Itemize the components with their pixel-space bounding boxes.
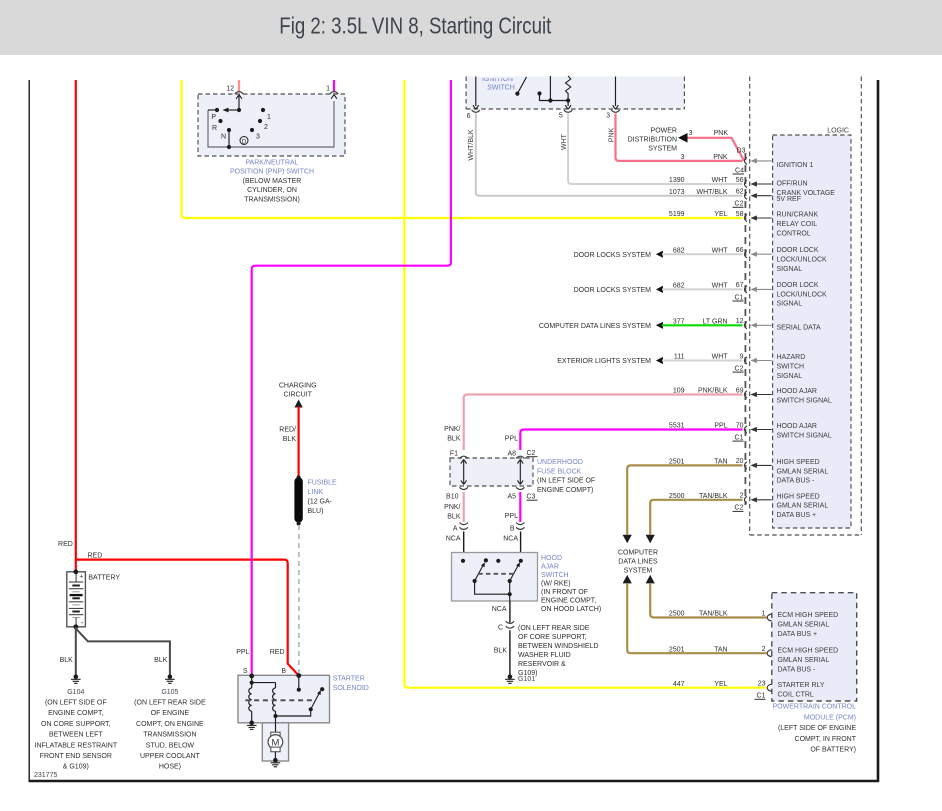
svg-text:OFF/RUN: OFF/RUN xyxy=(777,180,808,187)
svg-text:(IN LEFT SIDE OF: (IN LEFT SIDE OF xyxy=(537,478,595,485)
svg-text:BETWEEN WINDSHIELD: BETWEEN WINDSHIELD xyxy=(518,643,599,650)
door locks system reference (pin 66) xyxy=(656,251,663,258)
svg-text:SWITCH: SWITCH xyxy=(487,85,515,92)
svg-text:231775: 231775 xyxy=(34,772,57,779)
svg-text:NCA: NCA xyxy=(503,536,518,543)
fuse block pin B10 xyxy=(460,487,468,489)
wire PNK to power distribution system (with diagonal) xyxy=(687,138,744,161)
hood ajar switch box xyxy=(452,553,538,602)
svg-text:DOOR LOCK: DOOR LOCK xyxy=(777,282,819,289)
wire TAN to ECM pin 2 xyxy=(627,583,766,653)
svg-text:COMPUTER: COMPUTER xyxy=(618,549,658,556)
PCM pin 56 row xyxy=(745,180,747,187)
svg-text:HOOD AJAR: HOOD AJAR xyxy=(777,423,817,430)
svg-text:STARTER: STARTER xyxy=(333,676,365,683)
svg-text:BLK: BLK xyxy=(447,514,461,521)
connector B xyxy=(516,523,524,525)
svg-text:5199: 5199 xyxy=(669,211,685,218)
computer data lines system reference (pin 12) serial data wire LT GRN xyxy=(656,322,663,329)
svg-text:DOOR LOCKS SYSTEM: DOOR LOCKS SYSTEM xyxy=(574,252,652,259)
svg-text:WASHER FLUID: WASHER FLUID xyxy=(518,652,571,659)
svg-text:TRANSMISSION): TRANSMISSION) xyxy=(244,196,300,203)
svg-text:5: 5 xyxy=(559,112,563,119)
svg-text:+: + xyxy=(79,574,83,581)
svg-text:BLU): BLU) xyxy=(308,508,324,515)
svg-text:5V REF: 5V REF xyxy=(777,196,802,203)
svg-text:LOCK/UNLOCK: LOCK/UNLOCK xyxy=(777,257,828,264)
wire YEL run/crank: left vertical + horizontal to PCM pin 58 xyxy=(182,80,743,218)
svg-text:ENGINE COMPT,: ENGINE COMPT, xyxy=(48,710,103,717)
svg-text:GMLAN SERIAL: GMLAN SERIAL xyxy=(778,657,830,664)
wire BLK to G101 xyxy=(509,630,511,674)
solenoid coils xyxy=(251,676,253,683)
ignition resistor xyxy=(566,76,571,101)
svg-text:SYSTEM: SYSTEM xyxy=(624,568,653,575)
svg-text:BLK: BLK xyxy=(447,436,461,443)
wire hidden RED/BLK dashed to solenoid B xyxy=(298,525,300,674)
solenoid B terminal xyxy=(296,673,301,678)
fuse block pin A8 xyxy=(516,456,524,458)
svg-text:RED: RED xyxy=(88,552,103,559)
PNP internal wiper and contacts xyxy=(238,96,240,110)
fuse element A8-A5 xyxy=(519,460,521,484)
svg-text:ON CORE SUPPORT,: ON CORE SUPPORT, xyxy=(41,721,111,728)
svg-text:PNK: PNK xyxy=(714,130,729,137)
fuse block pin F1 xyxy=(460,456,468,458)
ignition switch box (top cut off) xyxy=(466,77,684,110)
wire TAN PCM pin 20 to data lines arrow xyxy=(627,465,742,534)
wire WHT from ignition pin 5 to PCM pin 56 xyxy=(568,114,742,185)
svg-text:C2: C2 xyxy=(735,365,744,372)
svg-text:HOOD: HOOD xyxy=(541,555,562,562)
wire PNK/BLK PCM pin 69 to fuse block F1 xyxy=(464,395,743,451)
svg-text:PNK: PNK xyxy=(713,154,728,161)
svg-text:TRANSMISSION: TRANSMISSION xyxy=(143,732,196,739)
svg-text:TAN: TAN xyxy=(714,646,727,653)
PCM LOGIC box xyxy=(773,135,851,528)
svg-text:9: 9 xyxy=(740,353,744,360)
PCM pin 69 row xyxy=(745,391,747,398)
svg-text:1390: 1390 xyxy=(669,177,685,184)
svg-text:3: 3 xyxy=(256,134,260,141)
svg-text:SERIAL DATA: SERIAL DATA xyxy=(777,325,822,332)
PCM pin 9 row xyxy=(745,357,747,364)
svg-text:(BELOW MASTER: (BELOW MASTER xyxy=(243,178,302,185)
svg-text:ECM HIGH SPEED: ECM HIGH SPEED xyxy=(778,612,839,619)
svg-text:DATA BUS -: DATA BUS - xyxy=(778,667,817,674)
wire RED stub to PNP pin 12 xyxy=(238,80,240,91)
ground G104 xyxy=(74,674,79,679)
PCM pin 2 row xyxy=(745,496,747,503)
svg-text:SIGNAL: SIGNAL xyxy=(777,266,803,273)
svg-text:1: 1 xyxy=(326,86,330,93)
svg-text:66: 66 xyxy=(736,247,744,254)
svg-text:YEL: YEL xyxy=(714,211,727,218)
PCM lower dashed box xyxy=(772,593,857,701)
ignition switch internals xyxy=(517,77,526,94)
ignition pin 5 xyxy=(567,101,569,107)
svg-text:6: 6 xyxy=(467,113,471,120)
svg-text:POWER: POWER xyxy=(651,128,677,135)
svg-text:NCA: NCA xyxy=(492,606,507,613)
svg-text:SWITCH: SWITCH xyxy=(777,363,805,370)
svg-text:2: 2 xyxy=(740,493,744,500)
svg-text:UNDERHOOD: UNDERHOOD xyxy=(537,459,583,466)
wire PPL main: from top down, left, down to solenoid S xyxy=(252,80,451,674)
svg-text:70: 70 xyxy=(736,422,744,429)
svg-text:B: B xyxy=(510,526,515,533)
svg-text:SOLENOID: SOLENOID xyxy=(333,685,369,692)
svg-text:3: 3 xyxy=(689,130,693,137)
svg-text:BLK: BLK xyxy=(60,657,74,664)
svg-text:(LEFT SIDE OF ENGINE: (LEFT SIDE OF ENGINE xyxy=(778,725,856,732)
svg-text:(IN FRONT OF: (IN FRONT OF xyxy=(541,589,588,596)
svg-text:CYLINDER, ON: CYLINDER, ON xyxy=(247,187,297,194)
wire NCA B to hood ajar switch xyxy=(520,532,522,562)
svg-text:N: N xyxy=(221,134,226,141)
svg-text:EXTERIOR LIGHTS SYSTEM: EXTERIOR LIGHTS SYSTEM xyxy=(557,358,651,365)
svg-text:C2: C2 xyxy=(735,201,744,208)
svg-text:CONTROL: CONTROL xyxy=(777,230,811,237)
svg-text:SWITCH: SWITCH xyxy=(541,572,569,579)
door locks system reference (pin 67) xyxy=(656,286,663,293)
wire PNK from ignition pin 3 to PCM pin C4 (ignition 1) xyxy=(616,114,743,161)
svg-text:SYSTEM: SYSTEM xyxy=(648,146,677,153)
svg-text:ECM HIGH SPEED: ECM HIGH SPEED xyxy=(778,648,839,655)
svg-text:DOOR LOCK: DOOR LOCK xyxy=(777,247,819,254)
svg-text:2500: 2500 xyxy=(669,611,685,618)
svg-text:(ON LEFT SIDE OF: (ON LEFT SIDE OF xyxy=(45,700,107,707)
svg-text:SIGNAL: SIGNAL xyxy=(777,301,803,308)
PCM connector dashed line xyxy=(744,153,746,505)
fuse element F1-B10 xyxy=(463,460,465,484)
svg-text:58: 58 xyxy=(736,211,744,218)
svg-text:1073: 1073 xyxy=(669,189,685,196)
PNP pin 1 connector xyxy=(330,92,338,94)
svg-text:-: - xyxy=(81,618,84,627)
svg-text:C1: C1 xyxy=(735,434,744,441)
svg-text:COMPT, IN FRONT: COMPT, IN FRONT xyxy=(795,736,857,743)
svg-text:A5: A5 xyxy=(507,494,516,501)
svg-text:FUSIBLE: FUSIBLE xyxy=(308,480,338,487)
svg-text:RESERVOIR &: RESERVOIR & xyxy=(518,661,566,668)
svg-text:WHT: WHT xyxy=(712,177,729,184)
svg-text:C2: C2 xyxy=(735,505,744,512)
computer data lines system arrows up xyxy=(623,575,632,584)
PCM pin 58 row xyxy=(745,214,747,221)
wire PPL PCM pin 70 to fuse block A8 xyxy=(520,430,742,451)
svg-text:MODULE (PCM): MODULE (PCM) xyxy=(804,714,856,721)
svg-text:(12 GA-: (12 GA- xyxy=(308,499,333,506)
svg-text:INFLATABLE RESTRAINT: INFLATABLE RESTRAINT xyxy=(35,742,118,749)
svg-text:3: 3 xyxy=(606,112,610,119)
svg-text:UPPER COOLANT: UPPER COOLANT xyxy=(140,753,201,760)
starter motor ground xyxy=(273,758,278,763)
wire NCA to connector C xyxy=(509,601,511,623)
svg-text:FUSE BLOCK: FUSE BLOCK xyxy=(537,468,582,475)
PNP pin 12 connector xyxy=(235,92,243,94)
svg-text:PARK/NEUTRAL: PARK/NEUTRAL xyxy=(245,160,298,167)
svg-text:FRONT END SENSOR: FRONT END SENSOR xyxy=(40,753,112,760)
underhood fuse block box xyxy=(450,458,533,486)
svg-text:BLK: BLK xyxy=(283,436,297,443)
svg-text:COMPT, ON ENGINE: COMPT, ON ENGINE xyxy=(136,721,204,728)
svg-text:PNK: PNK xyxy=(609,127,616,142)
svg-text:(W/ RKE): (W/ RKE) xyxy=(541,580,571,587)
diagram frame border xyxy=(28,80,30,782)
svg-text:A8: A8 xyxy=(507,451,516,458)
svg-text:SWITCH SIGNAL: SWITCH SIGNAL xyxy=(777,397,832,404)
PCM pin 62 row xyxy=(745,192,747,199)
svg-text:C1: C1 xyxy=(757,693,766,700)
svg-text:BLK: BLK xyxy=(154,657,168,664)
wire TAN/BLK to ECM pin 1 xyxy=(650,583,766,618)
svg-text:DATA BUS +: DATA BUS + xyxy=(777,512,817,519)
svg-text:LOCK/UNLOCK: LOCK/UNLOCK xyxy=(777,291,828,298)
wire YEL starter relay: vertical + horizontal to PCM pin 23 xyxy=(404,80,766,688)
svg-text:RELAY COIL: RELAY COIL xyxy=(777,221,818,228)
connector C xyxy=(506,621,514,623)
svg-text:DATA BUS -: DATA BUS - xyxy=(777,478,816,485)
svg-text:BETWEEN LEFT: BETWEEN LEFT xyxy=(49,732,103,739)
svg-text:OF CORE SUPPORT,: OF CORE SUPPORT, xyxy=(518,634,587,641)
svg-text:BLK: BLK xyxy=(494,647,508,654)
svg-text:D: D xyxy=(242,139,247,145)
svg-text:1: 1 xyxy=(762,610,766,617)
svg-text:20: 20 xyxy=(736,458,744,465)
motor housing xyxy=(262,723,288,761)
svg-text:YEL: YEL xyxy=(714,681,727,688)
svg-text:HOOD AJAR: HOOD AJAR xyxy=(777,388,817,395)
svg-text:HOSE): HOSE) xyxy=(159,764,181,771)
svg-text:2501: 2501 xyxy=(669,646,685,653)
ECM pin 23 row xyxy=(767,684,772,691)
PCM pin 67 row xyxy=(745,286,747,293)
PNP D indicator xyxy=(240,137,248,145)
svg-text:HIGH SPEED: HIGH SPEED xyxy=(777,493,820,500)
svg-text:COIL CTRL: COIL CTRL xyxy=(778,692,814,699)
ground G105 xyxy=(168,674,173,679)
svg-text:447: 447 xyxy=(673,681,685,688)
PCM pin 20 row xyxy=(745,462,747,469)
svg-text:R: R xyxy=(212,125,217,132)
wire PPL A5 to connector B xyxy=(519,492,521,522)
PCM pin 12 row xyxy=(745,322,747,329)
svg-text:C2: C2 xyxy=(527,450,536,457)
svg-text:23: 23 xyxy=(758,681,766,688)
PCM outer dashed box xyxy=(749,77,751,536)
svg-text:SWITCH SIGNAL: SWITCH SIGNAL xyxy=(777,432,832,439)
svg-text:GMLAN SERIAL: GMLAN SERIAL xyxy=(777,503,829,510)
ECM pin 1 row xyxy=(767,614,772,621)
wire BLK battery to G104 xyxy=(75,627,77,675)
svg-text:OF BATTERY): OF BATTERY) xyxy=(810,747,856,754)
svg-text:3: 3 xyxy=(681,154,685,161)
svg-text:RED/: RED/ xyxy=(279,427,296,434)
svg-text:P: P xyxy=(211,114,216,121)
svg-text:(ON LEFT REAR SIDE: (ON LEFT REAR SIDE xyxy=(518,625,590,632)
svg-text:67: 67 xyxy=(736,282,744,289)
svg-text:(ON LEFT REAR SIDE: (ON LEFT REAR SIDE xyxy=(134,700,206,707)
ignition pin 6 xyxy=(475,77,477,107)
svg-text:ENGINE COMPT,: ENGINE COMPT, xyxy=(541,597,596,604)
solenoid plunger dashed link xyxy=(245,699,313,701)
title bar xyxy=(0,0,942,55)
PCM pin 66 row xyxy=(745,251,747,258)
svg-text:WHT: WHT xyxy=(561,133,568,150)
svg-text:OF ENGINE: OF ENGINE xyxy=(151,710,190,717)
wire PNK/BLK B10 to connector A xyxy=(463,492,465,522)
svg-text:STARTER RLY: STARTER RLY xyxy=(778,682,825,689)
svg-text:TAN/BLK: TAN/BLK xyxy=(699,611,728,618)
svg-text:PPL: PPL xyxy=(236,649,249,656)
svg-text:S: S xyxy=(243,668,248,675)
wire RED/BLK to fusible link xyxy=(298,407,300,478)
svg-text:RED: RED xyxy=(270,649,285,656)
svg-text:ENGINE COMPT): ENGINE COMPT) xyxy=(537,487,593,494)
svg-text:C4: C4 xyxy=(735,167,744,174)
svg-text:HAZARD: HAZARD xyxy=(777,354,806,361)
svg-text:DOOR LOCKS SYSTEM: DOOR LOCKS SYSTEM xyxy=(574,287,652,294)
svg-text:POSITION (PNP) SWITCH: POSITION (PNP) SWITCH xyxy=(230,169,314,176)
svg-text:F1: F1 xyxy=(450,451,458,458)
exterior lights system reference (pin 9) xyxy=(656,357,663,364)
svg-text:CIRCUIT: CIRCUIT xyxy=(284,392,313,399)
park/neutral position switch box xyxy=(198,94,345,156)
svg-text:AJAR: AJAR xyxy=(541,563,559,570)
svg-text:C1: C1 xyxy=(735,294,744,301)
svg-text:DISTRIBUTION: DISTRIBUTION xyxy=(628,137,677,144)
svg-text:PPL: PPL xyxy=(505,436,518,443)
svg-text:SIGNAL: SIGNAL xyxy=(777,373,803,380)
svg-text:69: 69 xyxy=(736,387,744,394)
svg-text:PPL: PPL xyxy=(505,513,518,520)
PCM pin 70 row xyxy=(745,426,747,433)
solenoid coil ground xyxy=(249,721,254,726)
svg-text:HIGH SPEED: HIGH SPEED xyxy=(777,459,820,466)
computer data lines system arrows down xyxy=(623,535,632,544)
fusible link xyxy=(297,475,301,479)
battery xyxy=(67,572,86,627)
svg-text:ON HOOD LATCH): ON HOOD LATCH) xyxy=(541,606,601,613)
wire BLK battery to G105 xyxy=(76,629,170,675)
svg-text:STUD, BELOW: STUD, BELOW xyxy=(146,742,195,749)
starter solenoid box xyxy=(238,675,330,723)
svg-text:LINK: LINK xyxy=(308,489,324,496)
fuse block pin A5 xyxy=(516,487,524,489)
svg-text:DATA LINES: DATA LINES xyxy=(618,559,658,566)
svg-text:GMLAN SERIAL: GMLAN SERIAL xyxy=(778,621,830,628)
svg-text:WHT/BLK: WHT/BLK xyxy=(468,129,475,160)
svg-text:RUN/CRANK: RUN/CRANK xyxy=(777,212,819,219)
ECM pin 2 row xyxy=(767,650,772,657)
svg-text:C: C xyxy=(498,624,503,631)
svg-text:Fig 2: 3.5L VIN 8, Starting Ci: Fig 2: 3.5L VIN 8, Starting Circuit xyxy=(279,13,551,39)
svg-text:G101: G101 xyxy=(518,676,535,683)
svg-text:G105: G105 xyxy=(161,689,178,696)
hood ajar switch contacts xyxy=(461,559,465,563)
svg-text:BATTERY: BATTERY xyxy=(88,575,120,582)
svg-text:COMPUTER DATA LINES SYSTEM: COMPUTER DATA LINES SYSTEM xyxy=(539,323,651,330)
svg-text:2: 2 xyxy=(264,124,268,131)
svg-text:1: 1 xyxy=(267,114,271,121)
svg-text:A: A xyxy=(453,526,458,533)
wire NCA A to hood ajar switch xyxy=(463,532,465,562)
svg-text:62: 62 xyxy=(736,189,744,196)
svg-text:G104: G104 xyxy=(67,689,84,696)
svg-text:C3: C3 xyxy=(527,494,536,501)
wire TAN/BLK PCM pin 2 to data lines arrow xyxy=(650,500,742,535)
svg-text:56: 56 xyxy=(736,177,744,184)
wire PPL stub to PNP pin 1 xyxy=(333,80,335,91)
starter motor xyxy=(275,716,277,732)
svg-text:LOGIC: LOGIC xyxy=(827,128,849,135)
svg-text:12: 12 xyxy=(226,86,234,93)
svg-text:12: 12 xyxy=(736,318,744,325)
wire WHT/BLK from ignition pin 6 to PCM pin 62 xyxy=(476,114,743,196)
svg-text:PNK/: PNK/ xyxy=(444,504,460,511)
svg-text:IGNITION 1: IGNITION 1 xyxy=(777,162,814,169)
svg-text:NCA: NCA xyxy=(446,536,461,543)
svg-text:DATA BUS +: DATA BUS + xyxy=(778,631,818,638)
svg-text:WHT/BLK: WHT/BLK xyxy=(696,189,727,196)
svg-text:RED: RED xyxy=(58,541,73,548)
connector A xyxy=(460,523,468,525)
ground G101 xyxy=(508,674,513,679)
wire RED main vertical from top to battery xyxy=(75,80,77,571)
svg-text:CHARGING: CHARGING xyxy=(279,383,317,390)
svg-text:POWERTRAIN CONTROL: POWERTRAIN CONTROL xyxy=(773,704,857,711)
ignition pin 3 xyxy=(615,77,617,107)
svg-text:GMLAN SERIAL: GMLAN SERIAL xyxy=(777,468,829,475)
solenoid S terminal xyxy=(249,674,254,679)
svg-text:& G109): & G109) xyxy=(63,764,89,771)
svg-text:B: B xyxy=(281,668,286,675)
wire RED branch battery to starter solenoid B xyxy=(76,560,299,676)
svg-text:PNK/: PNK/ xyxy=(444,426,460,433)
svg-text:B10: B10 xyxy=(446,494,459,501)
solenoid contact linkage xyxy=(276,709,311,716)
PCM pin C4 row xyxy=(745,157,747,164)
svg-text:2: 2 xyxy=(762,646,766,653)
svg-text:D3: D3 xyxy=(737,148,746,155)
